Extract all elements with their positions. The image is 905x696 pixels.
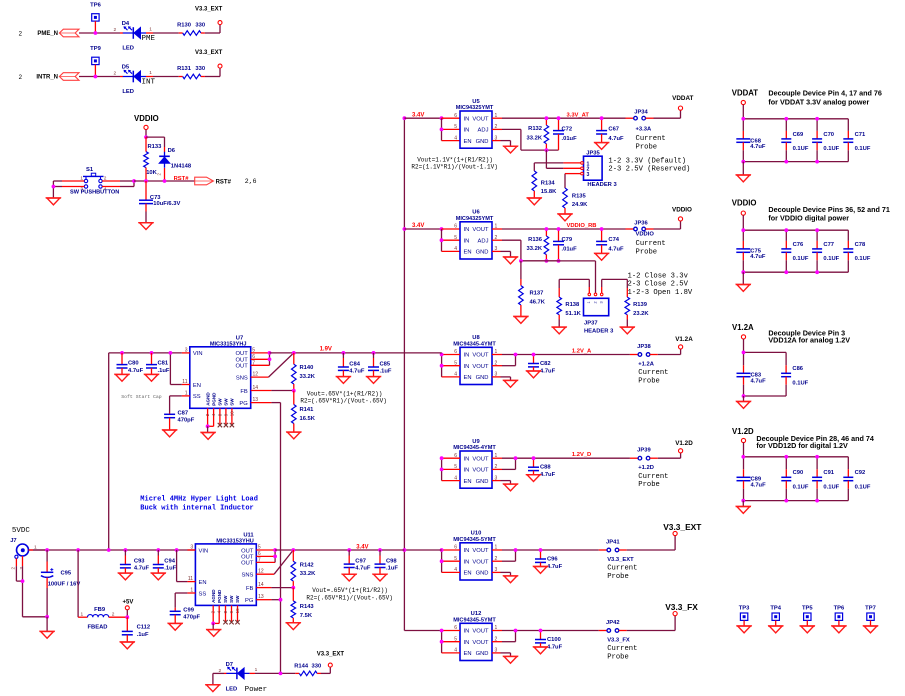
junction U11 OUT2 [273,555,277,559]
wire FB9 branch [78,550,87,617]
junction VDDIO bank left bottom [741,270,745,274]
svg-text:C72: C72 [562,126,573,132]
junction U11 PG [279,598,283,602]
svg-text:C84: C84 [349,361,360,367]
wire V1.2A bank top bus [744,339,787,352]
svg-text:for VDDIO digital power: for VDDIO digital power [768,214,849,223]
svg-text:2: 2 [114,71,117,77]
svg-text:EN: EN [464,651,472,657]
wire to diode branch [146,137,165,147]
svg-text:0.1UF: 0.1UF [823,146,839,152]
wire V1.2D bank bottom bus [743,500,848,502]
svg-text:Current: Current [638,473,668,481]
wire 3.4V vertical bus [404,118,441,630]
power port V3.3_EXT [195,50,223,68]
junction C76 top [784,228,788,232]
testpoint TP6 [90,2,101,33]
svg-text:U6: U6 [472,210,480,216]
svg-text:GND: GND [476,651,489,657]
svg-text:VDDAT: VDDAT [672,95,693,102]
wire U12 VOUT1 [492,630,607,632]
power port VDDIO (bank) [732,199,757,216]
junction C96 top [539,548,543,552]
svg-text:EN: EN [199,580,207,586]
note decouple V1.2D [756,434,873,450]
svg-text:V3.3_EXT: V3.3_EXT [607,557,634,563]
svg-text:for VDD12D for digital 1.2V: for VDD12D for digital 1.2V [756,441,848,450]
wire U8 GND pin [492,377,511,381]
junction C70 top [815,117,819,121]
junction R137 top [519,259,523,263]
wire U11 OUT pins [256,550,275,562]
svg-text:4.7uF: 4.7uF [547,564,563,570]
regulator U10 MIC94345-5YMT [453,531,497,580]
svg-text:+1.2D: +1.2D [638,465,654,471]
wire VDDAT bank top bus [743,105,848,119]
svg-text:4.7uF: 4.7uF [751,379,767,385]
svg-text:GND: GND [476,375,489,381]
label soft start cap [121,394,161,400]
wire JP41 to V3.3_EXT [619,536,675,550]
svg-text:OUT: OUT [241,548,254,554]
svg-text:D6: D6 [168,148,176,154]
svg-text:IN: IN [464,640,470,646]
junction U8 pin5 [440,364,444,368]
svg-text:VOUT: VOUT [472,364,489,370]
junction C84 tap [342,351,346,355]
svg-text:D4: D4 [122,21,130,27]
wire RST net [134,180,195,182]
svg-text:33.2K: 33.2K [527,135,543,141]
capacitor C87 470pF [164,411,195,431]
svg-text:VDD12A for analog 1.2V: VDD12A for analog 1.2V [768,336,850,345]
junction tie U6 pin6 [440,227,444,231]
resistor R141 16.5K [292,391,316,432]
ground TP5 [800,626,815,633]
wire R139 to JP37 pin3 [602,279,628,297]
svg-text:U10: U10 [471,531,482,537]
svg-text:VDDAT: VDDAT [732,89,759,98]
junction U10 pin6 [440,548,444,552]
svg-text:IN: IN [464,468,470,474]
svg-text:PGND: PGND [217,589,222,603]
svg-text:V3.3_EXT: V3.3_EXT [663,522,702,532]
svg-text:4.7uF: 4.7uF [540,472,556,478]
junction S1 left [52,185,56,189]
svg-text:R140: R140 [300,365,314,371]
svg-text:VDDIO: VDDIO [134,114,159,123]
jumper JP42 [606,620,620,633]
junction R136 top [545,227,549,231]
svg-text:VOUT: VOUT [472,227,489,233]
wire S1 left pins [53,181,84,198]
sheet pin number 2 (PME_N) [19,30,23,37]
capacitor C78 0.1UF [843,230,871,272]
wire port to LED [79,32,120,34]
label +1.2A current probe [638,361,668,385]
capacitor C90 0.1UF [781,457,809,501]
junction PG/D7 [279,672,283,676]
svg-text:4.7uF: 4.7uF [608,136,624,142]
svg-text:VOUT: VOUT [472,353,489,359]
testpoint TP4 (bottom) [770,605,781,626]
sheet pin number 2 (INTR_N) [19,74,23,81]
svg-text:RST#: RST# [216,179,232,185]
svg-text:0.1UF: 0.1UF [855,484,871,490]
junction V1.2A bank left top [742,351,746,355]
net label 3.4V (U11) [356,545,368,551]
svg-text:U9: U9 [472,439,480,445]
ground R143 [286,623,301,630]
svg-text:C95: C95 [61,571,72,577]
svg-text:0.1UF: 0.1UF [793,146,809,152]
svg-text:GND: GND [476,139,489,145]
junction U11 EN riser [175,548,179,552]
wire input tie U12 [442,631,460,653]
wire U5 VOUT [492,117,634,119]
svg-text:SNS: SNS [236,375,248,381]
capacitor C97 4.7uF [344,550,371,574]
resistor R143 7.5K [291,588,314,623]
formula U5 [411,156,497,170]
junction R140 top [292,351,296,355]
LED D4 [114,21,154,51]
junction U9 pin6 [440,456,444,460]
wire 3.4V net [275,549,404,551]
svg-text:AGND: AGND [211,589,216,603]
svg-text:VOUT: VOUT [472,456,489,462]
svg-text:SW: SW [223,595,228,603]
net label VDDIO_RB [567,223,597,229]
junction C94 tap [156,548,160,552]
ground C73 [138,223,153,230]
jumper JP41 [606,539,620,552]
junction bus U5 [403,116,407,120]
svg-text:.1uF: .1uF [158,368,170,374]
svg-text:IN: IN [464,456,470,462]
svg-text:2: 2 [19,74,23,81]
capacitor C69 0.1UF [781,119,809,162]
svg-text:ADJ: ADJ [478,238,489,244]
svg-text:S1: S1 [86,167,94,173]
label V3.3_FX current probe [607,637,637,661]
ground C85 [366,377,381,384]
junction R132 top [545,116,549,120]
svg-text:PG: PG [245,598,254,604]
svg-text:4.7uF: 4.7uF [547,644,563,650]
pin numbers U11 bottom [211,608,240,614]
ground D7 [205,673,220,691]
wire JP38 to V1.2A [650,349,681,355]
junction C76 bottom [784,270,788,274]
svg-text:C79: C79 [562,237,573,243]
wire U7 VIN rail [109,352,182,354]
svg-text:330: 330 [195,22,205,28]
svg-text:V3.3_EXT: V3.3_EXT [195,7,223,13]
capacitor C84 4.7uF [338,353,365,377]
power port VDDAT [672,95,693,110]
ground U7 AGND [200,426,215,439]
net label RST# [174,176,190,182]
svg-text:JP38: JP38 [637,344,651,350]
junction U10 pin5 [440,559,444,563]
svg-text:Current: Current [638,369,668,377]
junction tie U6 pin5 [440,238,444,242]
svg-text:EN: EN [464,571,472,577]
junction U9 pin5 [440,468,444,472]
ground VDDIO bank [736,272,751,291]
svg-text:4.7uF: 4.7uF [750,254,766,260]
svg-text:0.1UF: 0.1UF [823,256,839,262]
junction C85 tap [372,351,376,355]
svg-text:SNS: SNS [241,573,253,579]
junction U10 VOUT2 [514,548,518,552]
svg-text:IN: IN [464,559,470,565]
wire U7 OUT pins [251,353,270,365]
junction C81 tap [150,351,154,355]
capacitor C112 .1uF [122,617,150,642]
power port V1.2A [675,336,693,349]
svg-text:4: 4 [454,135,457,141]
junction V1.2A bank left bottom [742,394,746,398]
capacitor C71 0.1UF [843,119,871,162]
junction C67 top [600,116,604,120]
wire LED to resistor [153,32,179,34]
svg-text:Current: Current [607,565,637,573]
resistor R140 33.2K [292,353,316,391]
svg-text:R132: R132 [528,126,542,132]
junction C77 top [815,228,819,232]
ground C99 [168,623,183,630]
svg-text:SS: SS [199,591,207,597]
junction C79 bottom [557,259,561,263]
ground R135 [557,214,572,221]
svg-text:VOUT: VOUT [472,116,489,122]
capacitor C83 4.7uF [737,352,767,396]
svg-text:1.9V: 1.9V [320,346,332,352]
svg-text:VDDIO: VDDIO [672,206,692,213]
svg-text:C94: C94 [164,558,175,564]
svg-text:V3.3_FX: V3.3_FX [665,602,698,612]
svg-text:51.1K: 51.1K [565,311,581,317]
svg-text:Probe: Probe [636,248,658,256]
wire U7 FB [251,390,294,392]
svg-text:R2=(.65V*R1)/(Vout-.65V): R2=(.65V*R1)/(Vout-.65V) [306,594,392,601]
ground C80 [114,374,129,381]
svg-text:.1uF: .1uF [380,368,392,374]
wire U8 VOUT1 [492,354,638,356]
wire J7 to rail [33,549,47,551]
svg-text:10uF/6.3V: 10uF/6.3V [153,201,180,207]
testpoint TP7 (bottom) [865,605,876,626]
svg-text:16.5K: 16.5K [300,416,316,422]
svg-text:2: 2 [112,611,115,617]
svg-text:330: 330 [312,663,322,669]
junction C70 bottom [815,160,819,164]
wire bus to U10 [404,549,441,551]
wire U7 EN tie [170,353,181,385]
svg-text:IN: IN [464,364,470,370]
svg-text:C93: C93 [134,558,145,564]
svg-text:1.2V_D: 1.2V_D [572,452,591,458]
svg-text:JP41: JP41 [606,539,620,545]
svg-text:R2=(1.1V*R1)/(Vout-1.1V): R2=(1.1V*R1)/(Vout-1.1V) [411,163,497,170]
svg-text:Probe: Probe [638,377,660,385]
wire U11 SS to C99 [175,593,187,608]
net label PME [142,35,156,43]
junction R136 bottom [545,259,549,263]
svg-text:V3.3_FX: V3.3_FX [607,637,630,643]
wire U12 VOUT2 [492,631,516,642]
svg-text:PME: PME [142,35,156,43]
svg-text:3.4V: 3.4V [356,545,368,551]
svg-text:6: 6 [454,113,457,119]
svg-text:C100: C100 [547,637,561,643]
wire VDDIO bank bottom bus [743,271,848,273]
svg-text:IN: IN [464,116,470,122]
regulator U12 MIC94345-5YMT [453,611,497,660]
svg-text:LED: LED [122,89,134,95]
svg-text:0.1UF: 0.1UF [792,380,808,386]
ferrite bead FB9 [81,607,128,630]
ground C87 [162,430,177,437]
svg-text:R137: R137 [530,291,544,297]
resistor R137 46.7K [519,261,546,317]
svg-text:.01uF: .01uF [562,136,578,142]
svg-text:SW PUSHBUTTON: SW PUSHBUTTON [70,190,119,196]
svg-text:C81: C81 [158,361,169,367]
ground R137 [513,317,528,324]
svg-text:R139: R139 [633,302,648,308]
wire U5 ADJ [492,129,559,150]
wire U11 EN tie [177,550,188,582]
svg-text:4.7uF: 4.7uF [355,565,371,571]
wire U9 VOUT2 [492,458,516,469]
svg-text:PGND: PGND [211,392,216,406]
wire U11 SW pins (no connect) [223,605,239,624]
connector J7 [10,538,37,570]
wire U11 SS stub [187,592,195,594]
svg-text:SW: SW [224,398,229,406]
svg-text:R130: R130 [177,22,191,28]
ground R134 [527,198,542,205]
svg-text:.1uF: .1uF [137,632,149,638]
wire U7 SS to C87 [170,396,182,413]
junction VDDAT bank left bottom [741,160,745,164]
wire JP34 to VDDAT [646,110,681,118]
LED D5 [114,65,154,95]
wire U11 PG [256,599,280,601]
svg-text:LED: LED [122,45,134,51]
svg-text:470pF: 470pF [178,418,195,424]
ground C96 [533,567,548,574]
power port V1.2D [675,440,693,453]
junction C79 top [557,227,561,231]
svg-text:TP3: TP3 [739,605,750,611]
junction bus U6 [403,227,407,231]
LED D7 [219,662,258,693]
wire U11 VIN stub [187,549,195,551]
svg-text:R134: R134 [541,181,556,187]
resistor R130 330 330 [177,22,205,35]
svg-text:VOUT: VOUT [472,468,489,474]
wire input tie U5 [442,118,461,140]
svg-text:U12: U12 [471,611,482,617]
power port V3.3_EXT (bottom) [317,651,345,667]
svg-text:C87: C87 [178,411,189,417]
junction VDDAT bank left top [741,117,745,121]
svg-text:VDDIO: VDDIO [732,199,757,208]
svg-text:IN: IN [464,238,470,244]
wire V1.2A bank bottom bus [744,395,787,397]
ground R139 [620,327,635,334]
label 5VDC [12,527,31,535]
svg-text:EN: EN [464,375,472,381]
svg-text:10: 10 [235,608,240,614]
svg-text:C88: C88 [540,465,551,471]
svg-text:SW: SW [218,398,223,406]
ground V1.2A bank [736,396,751,408]
testpoint TP3 (bottom) [739,605,750,626]
svg-text:V1.2D: V1.2D [675,440,693,447]
svg-text:VOUT: VOUT [472,640,489,646]
junction C69 top [784,117,788,121]
junction FB node [292,389,296,393]
svg-text:VIN: VIN [199,548,209,554]
capacitor C73 10uF/6.3V [139,181,180,223]
wire VDDIO bank top bus [743,215,848,230]
diode D6 1N4148 [156,147,192,181]
ground C82 [526,371,541,378]
wire JP39 to V1.2D [650,453,681,458]
junction C95 tap [45,548,49,552]
net label INT [142,78,156,86]
svg-text:JP36: JP36 [634,220,648,226]
svg-text:Vout=.65V*(1+(R1/R2)): Vout=.65V*(1+(R1/R2)) [307,390,383,397]
junction U12 pin5 [440,640,444,644]
capacitor C77 0.1UF [812,230,840,272]
svg-text:0.1UF: 0.1UF [855,146,871,152]
svg-text:5VDC: 5VDC [12,527,31,535]
power port V1.2A (bank) [732,323,754,339]
svg-text:3: 3 [587,172,590,178]
svg-text:R135: R135 [572,194,587,200]
header JP37 [584,293,615,334]
svg-text:C67: C67 [608,126,619,132]
svg-text:.1uF: .1uF [386,565,398,571]
capacitor C79 .01uF [553,229,577,261]
svg-text:C86: C86 [792,366,803,372]
junction U9 VOUT2 [514,456,518,460]
svg-text:GND: GND [476,571,489,577]
net label 1.9V [320,346,332,352]
junction C93 tap [124,548,128,552]
capacitor C74 4.7uF [596,229,624,253]
svg-text:1: 1 [149,27,152,33]
port INTR_N [36,73,79,81]
svg-text:SS: SS [193,394,201,400]
svg-text:U5: U5 [472,99,480,105]
svg-text:D5: D5 [122,65,130,71]
junction C91 top [815,455,819,459]
wire resistor to V3.3_EXT [205,68,220,76]
junction C80 tap [120,351,124,355]
ground U9 pin3 [503,484,518,491]
junction V1.2D bank left top [741,455,745,459]
wire input tie U6 [442,229,461,251]
svg-text:23.2K: 23.2K [633,311,649,317]
svg-text:PME_N: PME_N [37,31,58,37]
